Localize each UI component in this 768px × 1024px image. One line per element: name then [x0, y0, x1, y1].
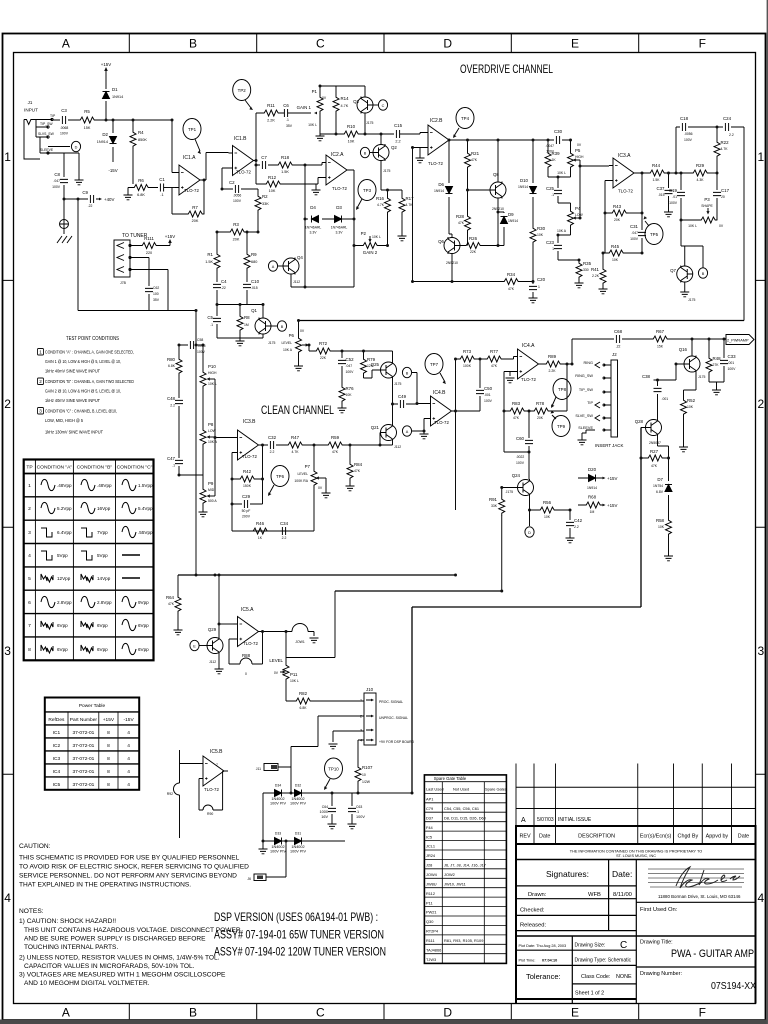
svg-text:J6, J7, J8, J14, J16, J17: J6, J7, J8, J14, J16, J17 — [444, 863, 486, 868]
svg-text:CONDITION "C" : CHANNEL B, LEV: CONDITION "C" : CHANNEL B, LEVEL @10, — [45, 409, 117, 414]
svg-text:Not Used: Not Used — [453, 787, 469, 792]
plot info column — [516, 936, 636, 1004]
ground — [423, 431, 425, 434]
svg-text:P6: P6 — [289, 333, 295, 338]
svg-text:OVERDRIVE CHANNEL: OVERDRIVE CHANNEL — [460, 62, 553, 76]
svg-text:SLVE_SW: SLVE_SW — [575, 414, 593, 418]
svg-text:C5: C5 — [207, 315, 213, 320]
svg-text:4: 4 — [127, 756, 130, 762]
transistor Q4 — [283, 258, 299, 275]
svg-text:3: 3 — [39, 409, 42, 414]
svg-text:C64: C64 — [322, 805, 328, 809]
capacitor C62 — [130, 258, 149, 311]
svg-text:6Vpp: 6Vpp — [97, 623, 108, 628]
feedback loop R83 R78 — [504, 364, 567, 479]
resistor R30 — [530, 226, 536, 244]
svg-text:2.2: 2.2 — [395, 140, 400, 144]
resistor R84 — [349, 445, 351, 486]
svg-text:R112: R112 — [426, 891, 435, 896]
test point TP6 — [271, 466, 289, 487]
svg-text:D34: D34 — [275, 784, 281, 788]
svg-text:R26: R26 — [469, 236, 478, 241]
svg-text:0V: 0V — [318, 486, 323, 490]
capacitor C23 — [558, 235, 579, 261]
svg-text:TLO-72: TLO-72 — [434, 420, 449, 425]
svg-text:R44: R44 — [652, 163, 661, 168]
svg-text:HIGH: HIGH — [208, 371, 217, 375]
svg-text:10K L: 10K L — [208, 382, 217, 386]
svg-text:5Vpp: 5Vpp — [57, 553, 68, 558]
svg-text:C8: C8 — [54, 172, 60, 177]
svg-text:GAIN 1 @ 10, LOW & HIGH @ 5, L: GAIN 1 @ 10, LOW & HIGH @ 5, LEVEL @ 10, — [45, 359, 121, 364]
svg-text:RING_SW: RING_SW — [575, 374, 593, 378]
revision table columns — [516, 764, 732, 827]
svg-text:100V: 100V — [233, 199, 242, 203]
svg-text:R58: R58 — [656, 518, 665, 523]
svg-text:200V: 200V — [242, 515, 251, 519]
svg-text:1: 1 — [28, 483, 31, 489]
ground — [680, 292, 689, 297]
potentiometer P7 LEVEL — [311, 469, 317, 487]
wire feedback column — [305, 165, 354, 287]
capacitor C19 — [680, 173, 682, 220]
svg-text:P2: P2 — [361, 231, 367, 236]
resistor R82 — [286, 700, 364, 702]
svg-text:R43: R43 — [613, 204, 622, 209]
svg-text:INPUT: INPUT — [24, 108, 38, 113]
svg-text:.0068: .0068 — [60, 126, 69, 130]
svg-text:CAPACITOR VALUES IN MICROFARAD: CAPACITOR VALUES IN MICROFARADS, 50V-10%… — [24, 963, 195, 970]
capacitor C17 — [716, 173, 718, 220]
svg-text:IC5: IC5 — [426, 834, 432, 839]
svg-text:E: E — [571, 37, 579, 51]
svg-text:Last Used: Last Used — [426, 787, 444, 792]
op-amp IC2.A — [322, 155, 351, 185]
capacitor C63 — [351, 793, 353, 824]
svg-text:IC3.B: IC3.B — [243, 419, 256, 425]
wire big loop — [412, 428, 641, 794]
svg-text:CONDITION "B": CONDITION "B" — [77, 465, 113, 471]
capacitor C58 — [190, 341, 193, 349]
test point TP10 — [325, 758, 343, 779]
svg-text:R111: R111 — [426, 938, 435, 943]
wire clean out — [263, 444, 393, 446]
resistor R41 — [603, 253, 605, 289]
svg-text:R83: R83 — [512, 401, 521, 406]
svg-text:R89: R89 — [548, 354, 557, 359]
svg-text:C54, C55, C56, C61: C54, C55, C56, C61 — [444, 806, 479, 811]
svg-text:R7: R7 — [192, 205, 198, 210]
svg-text:C4: C4 — [221, 279, 227, 284]
test point TP7 — [425, 354, 443, 375]
svg-text:3: 3 — [757, 644, 764, 658]
svg-text:F: F — [699, 37, 706, 51]
svg-text:R59: R59 — [331, 435, 340, 440]
svg-text:TIP_SW: TIP_SW — [40, 122, 53, 126]
diode D33 — [275, 838, 282, 845]
wire wiper bus — [215, 379, 234, 496]
svg-text:Spare Gates: Spare Gates — [485, 787, 507, 792]
svg-text:TLO-72: TLO-72 — [236, 170, 251, 175]
diode D1 — [105, 72, 107, 120]
svg-text:500 A: 500 A — [208, 499, 217, 503]
svg-text:REV: REV — [519, 834, 530, 840]
test point TP3 — [358, 180, 376, 201]
svg-text:2.2: 2.2 — [282, 536, 287, 540]
svg-text:D31: D31 — [295, 832, 301, 836]
svg-text:100V PIV: 100V PIV — [290, 802, 307, 806]
svg-text:R84: R84 — [354, 462, 363, 467]
ground — [582, 430, 595, 440]
svg-text:6: 6 — [28, 600, 31, 606]
svg-text:1) CAUTION: SHOCK HAZARD!!: 1) CAUTION: SHOCK HAZARD!! — [19, 918, 116, 925]
resistor R64 — [177, 575, 179, 595]
svg-text:10K A: 10K A — [283, 348, 293, 352]
svg-text:Drawing Size:: Drawing Size: — [575, 943, 606, 949]
svg-text:B: B — [406, 371, 409, 375]
svg-text:.22: .22 — [88, 204, 93, 208]
connector J6 — [254, 874, 266, 881]
svg-text:R88: R88 — [242, 653, 251, 658]
svg-text:R5: R5 — [84, 109, 90, 114]
svg-text:C47: C47 — [167, 456, 176, 461]
ground — [294, 366, 303, 371]
svg-text:C58: C58 — [197, 338, 203, 342]
svg-text:R81, R93, R105, R109: R81, R93, R105, R109 — [444, 938, 483, 943]
svg-text:R47: R47 — [291, 435, 300, 440]
svg-text:IC3: IC3 — [53, 756, 61, 762]
svg-text:4.7K: 4.7K — [721, 147, 729, 151]
svg-text:R46: R46 — [256, 521, 265, 526]
svg-text:.22: .22 — [616, 345, 621, 349]
svg-text:TP3: TP3 — [363, 188, 372, 193]
svg-text:47K: 47K — [458, 221, 465, 225]
svg-text:37-072-01: 37-072-01 — [72, 756, 94, 762]
svg-text:CONDITION "B" : CHANNEL A, GAI: CONDITION "B" : CHANNEL A, GAIN TWO SELE… — [45, 379, 135, 384]
svg-text:10K L: 10K L — [688, 224, 697, 228]
svg-text:20K: 20K — [192, 219, 199, 223]
svg-text:C50: C50 — [484, 386, 493, 391]
wire — [52, 119, 172, 121]
svg-text:Q4: Q4 — [297, 255, 303, 260]
transistor Q25 — [381, 362, 397, 379]
svg-text:0V: 0V — [322, 96, 327, 100]
svg-text:R56: R56 — [543, 500, 552, 505]
svg-text:P3: P3 — [704, 197, 710, 202]
svg-text:R90: R90 — [207, 812, 213, 816]
svg-text:100V PIV: 100V PIV — [270, 802, 287, 806]
capacitor C3 — [62, 116, 65, 124]
transistor Q2 — [373, 144, 389, 161]
svg-text:100V: 100V — [728, 367, 737, 371]
svg-text:ASSY# 07-194-02 120W TUNER: ASSY# 07-194-02 120W TUNER VERSION — [214, 945, 386, 959]
svg-text:10K: 10K — [544, 515, 551, 519]
svg-text:CAUTION:: CAUTION: — [19, 843, 51, 850]
svg-text:+15V: +15V — [165, 234, 175, 239]
svg-text:.48Vpp: .48Vpp — [57, 483, 72, 488]
svg-text:2.2K: 2.2K — [549, 369, 557, 373]
svg-text:R77: R77 — [490, 349, 499, 354]
svg-text:6.8K: 6.8K — [137, 193, 145, 197]
svg-text:1K: 1K — [552, 158, 557, 162]
svg-text:4: 4 — [4, 891, 11, 905]
resistor R47 — [286, 442, 304, 448]
svg-text:7: 7 — [216, 763, 218, 767]
svg-text:R14: R14 — [341, 96, 350, 101]
resistor R56 — [530, 509, 571, 511]
svg-text:IC2.B: IC2.B — [430, 118, 443, 124]
wire mid rail — [178, 574, 456, 576]
svg-text:1N4002: 1N4002 — [291, 845, 304, 849]
wire level tap — [286, 591, 335, 658]
svg-text:RefDes: RefDes — [48, 717, 65, 723]
svg-text:D3: D3 — [336, 205, 342, 210]
svg-text:TP8: TP8 — [558, 387, 567, 392]
svg-text:Plot Date: Thu Aug 28, 2003: Plot Date: Thu Aug 28, 2003 — [519, 944, 567, 948]
resistor R67 — [651, 336, 669, 342]
svg-text:6.8K: 6.8K — [168, 364, 176, 368]
svg-text:C23: C23 — [546, 240, 555, 245]
svg-text:P7: P7 — [305, 464, 311, 469]
svg-text:4: 4 — [28, 553, 31, 559]
svg-text:J175: J175 — [506, 490, 513, 494]
svg-text:1N914: 1N914 — [518, 185, 528, 189]
resistor R68 to +15V — [578, 504, 603, 506]
svg-text:PW21: PW21 — [426, 910, 437, 915]
svg-text:R12: R12 — [268, 175, 277, 180]
svg-text:C79: C79 — [426, 806, 433, 811]
svg-text:.55Vpp: .55Vpp — [138, 530, 153, 535]
svg-text:J112: J112 — [394, 445, 401, 449]
svg-text:.001: .001 — [728, 361, 735, 365]
op-amp IC1.A — [175, 165, 204, 195]
svg-text:D: D — [443, 37, 452, 51]
svg-text:C32: C32 — [268, 435, 277, 440]
resistor R11 — [262, 110, 280, 116]
svg-text:2.2: 2.2 — [270, 450, 275, 454]
svg-text:Released:: Released: — [520, 923, 546, 929]
resistor R5 — [78, 117, 96, 123]
svg-text:TLO-72: TLO-72 — [618, 189, 633, 194]
wire inv chain — [605, 181, 610, 254]
svg-text:D33: D33 — [275, 832, 281, 836]
test point TP5 — [645, 224, 663, 245]
node E — [200, 645, 208, 647]
node B — [698, 268, 707, 278]
svg-text:0V: 0V — [719, 224, 724, 228]
svg-text:0: 0 — [245, 672, 247, 676]
svg-text:2.8Vpp: 2.8Vpp — [57, 600, 72, 605]
svg-text:GAIN 2 @ 10, LOW & HIGH @ 5, L: GAIN 2 @ 10, LOW & HIGH @ 5, LEVEL @ 10, — [45, 389, 121, 394]
wire overdrive out rail — [299, 320, 745, 322]
svg-text:TLO-72: TLO-72 — [521, 377, 536, 382]
svg-text:J175: J175 — [698, 375, 705, 379]
svg-text:10K: 10K — [658, 525, 665, 529]
svg-text:D2: D2 — [102, 132, 108, 137]
svg-text:J112: J112 — [209, 660, 216, 664]
svg-text:JOW4: JOW4 — [426, 872, 438, 877]
chassis ground — [57, 199, 72, 243]
svg-text:TP5: TP5 — [650, 232, 659, 237]
svg-text:A: A — [272, 265, 275, 269]
svg-text:100V PIV: 100V PIV — [270, 850, 287, 854]
wire pin2 — [291, 716, 364, 767]
capacitor C8 — [48, 153, 79, 199]
svg-text:1.5Vpp: 1.5Vpp — [138, 483, 153, 488]
capacitor C48 — [175, 400, 183, 403]
wire bottom rail — [413, 281, 534, 283]
resistor R14 — [320, 86, 365, 134]
svg-text:C42: C42 — [574, 518, 583, 523]
resistor R76 — [339, 385, 345, 403]
svg-text:1kHz 130mV SINE WAVE INPUT: 1kHz 130mV SINE WAVE INPUT — [45, 430, 103, 435]
svg-text:8: 8 — [107, 743, 110, 749]
resistor R52 — [683, 390, 685, 398]
svg-text:1N754: 1N754 — [653, 484, 663, 488]
svg-text:F: F — [699, 1006, 706, 1020]
svg-text:R34: R34 — [507, 272, 516, 277]
svg-text:CONDITION "A": CONDITION "A" — [37, 465, 73, 471]
svg-text:10K L: 10K L — [557, 171, 566, 175]
svg-text:Tolerance:: Tolerance: — [526, 972, 561, 981]
svg-text:P5: P5 — [575, 148, 581, 153]
svg-text:C15: C15 — [394, 123, 403, 128]
power +15V — [105, 70, 107, 72]
svg-text:C: C — [620, 940, 627, 951]
potentiometer P8 LOW — [202, 388, 204, 428]
svg-text:50 pF: 50 pF — [242, 509, 251, 513]
svg-text:16Vpp: 16Vpp — [97, 506, 111, 511]
svg-text:C48: C48 — [167, 396, 176, 401]
svg-text:R28: R28 — [456, 214, 465, 219]
svg-text:.001: .001 — [662, 397, 669, 401]
svg-text:R92: R92 — [167, 792, 173, 796]
svg-text:Q2: Q2 — [391, 145, 397, 150]
wire output — [263, 631, 287, 633]
svg-text:10K L: 10K L — [308, 123, 317, 127]
resistor R10 — [320, 133, 394, 135]
svg-text:C: C — [316, 37, 325, 51]
svg-text:3: 3 — [4, 644, 11, 658]
svg-text:P11: P11 — [426, 900, 433, 905]
wire top loop — [676, 127, 744, 321]
test point table — [24, 460, 154, 661]
svg-text:P10: P10 — [208, 364, 216, 369]
ground — [338, 408, 347, 413]
svg-text:1N914: 1N914 — [508, 219, 518, 223]
capacitor C33 — [723, 339, 725, 382]
op-amp IC4.B — [427, 396, 456, 426]
svg-text:1000: 1000 — [320, 810, 328, 814]
svg-text:100V: 100V — [630, 237, 639, 241]
svg-text:1.5K: 1.5K — [653, 178, 661, 182]
svg-text:P1: P1 — [312, 89, 318, 94]
svg-text:Appvd by: Appvd by — [706, 834, 729, 840]
svg-text:3: 3 — [28, 530, 31, 536]
svg-text:D: D — [443, 1006, 452, 1020]
svg-text:AND BE SURE POWER SUPPLY IS DI: AND BE SURE POWER SUPPLY IS DISCHARGED B… — [24, 936, 206, 943]
ground — [174, 630, 183, 635]
svg-text:R2: R2 — [262, 194, 268, 199]
svg-text:37-072-01: 37-072-01 — [72, 730, 94, 736]
svg-text:.1: .1 — [356, 810, 359, 814]
svg-text:0V: 0V — [577, 143, 582, 147]
resistor R89 — [543, 363, 573, 365]
svg-text:THE INFORMATION CONTAINED ON T: THE INFORMATION CONTAINED ON THIS DRAWIN… — [570, 850, 702, 854]
svg-text:.015: .015 — [658, 193, 665, 197]
svg-text:INSERT JACK: INSERT JACK — [595, 443, 623, 448]
svg-text:B: B — [189, 37, 197, 51]
svg-text:.0056: .0056 — [684, 132, 693, 136]
svg-text:SLEEVE: SLEEVE — [578, 426, 593, 430]
svg-text:C1: C1 — [159, 177, 165, 182]
svg-text:1N4002: 1N4002 — [291, 797, 304, 801]
ground — [529, 298, 538, 303]
svg-text:LEVEL: LEVEL — [281, 341, 292, 345]
svg-text:R73: R73 — [463, 349, 472, 354]
svg-text:C9: C9 — [82, 190, 88, 195]
svg-text:Q7: Q7 — [670, 268, 676, 273]
capacitor C5 — [216, 305, 218, 339]
potentiometer P9 MID — [202, 446, 204, 487]
svg-text:2.2: 2.2 — [729, 133, 734, 137]
svg-text:TP1: TP1 — [188, 127, 197, 132]
svg-text:100K: 100K — [463, 364, 472, 368]
svg-text:2.8Vpp: 2.8Vpp — [97, 600, 112, 605]
svg-text:RT2P4: RT2P4 — [426, 929, 439, 934]
svg-text:Q21: Q21 — [371, 425, 380, 430]
svg-text:TAJ4866: TAJ4866 — [426, 948, 441, 953]
capacitor C37 — [668, 173, 670, 212]
svg-text:850K: 850K — [138, 138, 147, 142]
svg-text:10K A: 10K A — [208, 440, 218, 444]
svg-text:CONDITION "A" : CHANNEL A, GAI: CONDITION "A" : CHANNEL A, GAIN ONE SELE… — [45, 350, 134, 355]
svg-text:22K: 22K — [470, 250, 477, 254]
svg-text:1: 1 — [360, 699, 362, 703]
svg-text:R11: R11 — [267, 103, 275, 108]
potentiometer P11 LEVEL — [285, 632, 287, 664]
svg-text:D20: D20 — [588, 467, 597, 472]
svg-text:4: 4 — [127, 769, 130, 775]
svg-text:CLEAN CHANNEL: CLEAN CHANNEL — [261, 403, 334, 417]
svg-text:100V PIV: 100V PIV — [290, 850, 307, 854]
svg-text:.001: .001 — [484, 393, 491, 397]
svg-text:B: B — [364, 151, 367, 155]
svg-text:6Vpp: 6Vpp — [138, 647, 149, 652]
svg-text:8: 8 — [107, 730, 110, 736]
svg-text:11880 Borman Drive, St. Louis,: 11880 Borman Drive, St. Louis, MO 63146 — [658, 894, 741, 899]
power +15V — [169, 242, 171, 246]
svg-text:JCL1: JCL1 — [426, 844, 435, 849]
diode D6 — [449, 140, 452, 237]
node B — [271, 325, 277, 327]
svg-text:TEST POINT CONDITIONS: TEST POINT CONDITIONS — [66, 336, 120, 342]
svg-text:IC2.A: IC2.A — [331, 152, 344, 158]
capacitor C68 — [616, 335, 619, 343]
svg-text:D10: D10 — [520, 178, 529, 183]
capacitor C7 — [256, 164, 276, 166]
svg-text:Q16: Q16 — [679, 347, 688, 352]
svg-text:B: B — [702, 272, 705, 276]
svg-text:C18: C18 — [680, 116, 689, 121]
svg-text:10K L: 10K L — [372, 235, 381, 239]
svg-text:UNPROC. SIGNAL: UNPROC. SIGNAL — [379, 716, 408, 720]
svg-text:4.7K: 4.7K — [292, 450, 300, 454]
svg-text:47K: 47K — [513, 416, 520, 420]
svg-text:3.3V: 3.3V — [336, 231, 344, 235]
svg-text:R42: R42 — [243, 469, 252, 474]
svg-text:6.8V: 6.8V — [656, 490, 664, 494]
